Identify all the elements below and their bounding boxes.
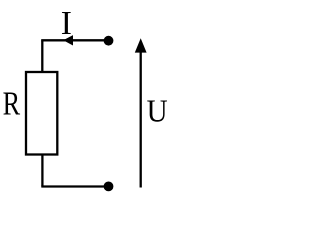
node top terminal [104,36,114,46]
wire top vertical [41,40,43,72]
node bottom terminal [104,182,114,192]
svg-text:I: I [61,5,72,42]
wire U arrow shaft [140,45,142,188]
resistor R [26,72,57,155]
current arrowhead I [63,35,73,45]
U arrowhead [135,38,147,52]
wire top horizontal [41,39,108,41]
wire bottom horizontal [41,185,108,187]
svg-text:R: R [3,86,21,123]
wire bottom vertical [41,155,43,187]
svg-text:U: U [147,94,168,129]
